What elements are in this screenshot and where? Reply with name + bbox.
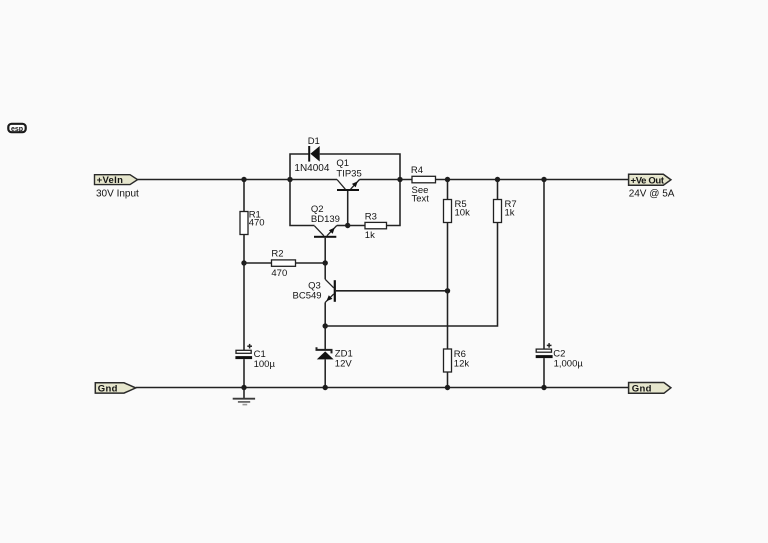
wire D1 branch — [290, 154, 308, 180]
wire node to R3 — [348, 225, 365, 227]
svg-text:R4: R4 — [411, 165, 423, 176]
wire R5 top — [447, 180, 449, 200]
wire Q2 emitter to node — [337, 225, 348, 227]
ground symbol — [233, 388, 255, 405]
wire R7 top — [497, 180, 499, 200]
wire Q3 collector — [324, 263, 326, 279]
svg-text:12k: 12k — [454, 358, 470, 369]
svg-text:12V: 12V — [335, 359, 353, 370]
label See Text — [412, 185, 430, 204]
wire R2 right — [296, 262, 326, 264]
capacitor C2 — [536, 343, 553, 358]
+VeOut terminal tag — [629, 174, 671, 186]
wire R6 top — [447, 291, 449, 349]
node Q3 base / R5 / R6 — [445, 288, 450, 293]
wire R1 bottom — [243, 235, 245, 264]
svg-text:BD139: BD139 — [311, 214, 340, 225]
resistor R4 — [412, 176, 436, 183]
wire R7 bottom to zener node — [325, 223, 497, 327]
node ground / C1 — [241, 385, 246, 390]
transistor Q1 — [337, 180, 360, 192]
svg-text:Gnd: Gnd — [632, 384, 652, 395]
node output rail / C2 — [541, 177, 546, 182]
wire C2 top — [543, 180, 545, 350]
wire C1 bottom — [243, 359, 245, 387]
svg-text:1k: 1k — [505, 207, 515, 218]
node ground / C2 — [541, 385, 546, 390]
resistor R2 — [272, 260, 296, 266]
wire C2 bottom — [543, 358, 545, 387]
capacitor C1 — [235, 344, 252, 359]
wire output rail — [436, 179, 629, 181]
Gnd terminal tag left — [95, 383, 135, 395]
node Q3 emitter / ZD1 / R7 line — [323, 323, 328, 328]
svg-text:24V @ 5A: 24V @ 5A — [629, 189, 675, 200]
node ground / ZD1 — [323, 385, 328, 390]
svg-text:1k: 1k — [365, 230, 375, 241]
svg-text:100µ: 100µ — [254, 359, 276, 370]
transistor Q2 — [314, 226, 337, 238]
svg-text:1,000µ: 1,000µ — [554, 358, 584, 369]
svg-text:R2: R2 — [271, 249, 283, 260]
svg-text:30V Input: 30V Input — [96, 188, 139, 199]
wire R5 bottom — [447, 223, 449, 291]
wire Q3 emitter — [324, 302, 326, 326]
node Q1 base / Q2 emitter / R3 — [345, 223, 350, 228]
svg-text:1N4004: 1N4004 — [294, 163, 329, 174]
node input rail / D1 branch — [287, 177, 292, 182]
diode D1 — [308, 146, 320, 162]
resistor R3 — [365, 222, 387, 228]
resistor R5 — [444, 200, 452, 223]
svg-text:Gnd: Gnd — [98, 384, 118, 395]
wire Q2 base — [324, 238, 326, 263]
wire C1 top — [243, 263, 245, 350]
node input rail / R1 — [241, 177, 246, 182]
svg-text:470: 470 — [249, 217, 265, 228]
wire Q1 emitter to R4 — [360, 179, 413, 181]
node ground / R6 — [445, 385, 450, 390]
svg-text:Text: Text — [412, 194, 430, 205]
wire ZD1 top — [324, 326, 326, 350]
svg-text:D1: D1 — [308, 136, 320, 147]
svg-text:BC549: BC549 — [293, 291, 322, 302]
svg-text:+VeIn: +VeIn — [97, 175, 124, 186]
svg-text:+Ve Out: +Ve Out — [631, 175, 665, 186]
wire R2 left — [244, 262, 272, 264]
node Q2 base / R2 / Q3 collector — [323, 260, 328, 265]
+VeIn terminal tag — [95, 175, 138, 187]
svg-text:esp: esp — [11, 126, 23, 133]
transistor Q3 — [325, 279, 336, 302]
wire Q3 base — [336, 290, 448, 292]
resistor R6 — [444, 349, 452, 372]
resistor R1 — [240, 212, 248, 235]
wire Q2 collector — [290, 180, 315, 226]
resistor R7 — [494, 200, 502, 223]
wire Q1 base — [347, 191, 349, 226]
Gnd terminal tag right — [629, 383, 671, 395]
svg-text:TIP35: TIP35 — [336, 168, 361, 179]
svg-text:10k: 10k — [455, 207, 471, 218]
wire D1 anode to output branch — [320, 154, 400, 226]
zener diode ZD1 — [317, 347, 334, 359]
ESP logo — [8, 124, 25, 133]
wire R6 bottom — [447, 372, 449, 388]
wire R1 top — [243, 180, 245, 212]
wire ZD1 bottom — [324, 359, 326, 387]
wire ground rail — [136, 387, 629, 389]
node output rail / R5 — [445, 177, 450, 182]
node R1 / R2 / C1 — [241, 260, 246, 265]
node output rail / R7 — [495, 177, 500, 182]
svg-text:470: 470 — [271, 268, 287, 279]
node output rail / D1-R3 branch — [397, 177, 402, 182]
wire input rail — [138, 179, 337, 181]
svg-text:R3: R3 — [365, 211, 377, 222]
